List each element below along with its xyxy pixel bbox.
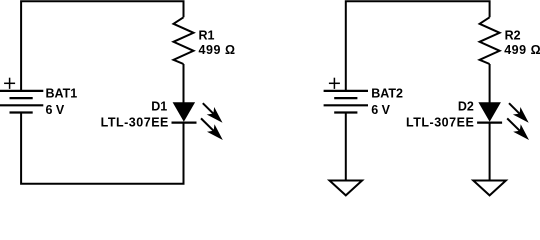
LED D2 — [477, 102, 502, 122]
svg-text:LTL-307EE: LTL-307EE — [406, 115, 474, 129]
wire: BAT2 negative to ground — [345, 113, 347, 181]
svg-text:6 V: 6 V — [371, 103, 390, 117]
wire: right circuit top rail (BAT2 + to R2) — [346, 1, 490, 91]
wire: left circuit bottom rail (BAT1 - to D1 cathode) — [21, 113, 183, 184]
resistor R2 — [480, 17, 500, 64]
svg-text:499 Ω: 499 Ω — [199, 43, 236, 57]
svg-text:BAT1: BAT1 — [46, 86, 78, 100]
battery BAT1 plus polarity mark — [4, 78, 15, 89]
svg-text:R1: R1 — [199, 29, 215, 43]
wire: D2 cathode to ground — [489, 123, 491, 181]
svg-text:D1: D1 — [151, 100, 167, 114]
battery BAT2 — [324, 91, 368, 113]
svg-text:D2: D2 — [458, 100, 474, 114]
LED D2 light emission arrows — [507, 103, 529, 140]
resistor R1 — [174, 17, 194, 64]
svg-text:BAT2: BAT2 — [371, 86, 403, 100]
svg-text:R2: R2 — [505, 29, 521, 43]
svg-text:499 Ω: 499 Ω — [504, 43, 540, 57]
svg-text:LTL-307EE: LTL-307EE — [101, 115, 169, 129]
LED D1 light emission arrows — [201, 103, 223, 140]
wire: left circuit top rail (BAT1 + to R1) — [21, 1, 183, 91]
battery BAT2 plus polarity mark — [329, 78, 340, 89]
wire: R1 to D1 anode — [183, 64, 185, 103]
ground symbol below D2 — [473, 181, 506, 196]
battery BAT1 — [0, 91, 43, 113]
LED D1 — [172, 102, 197, 122]
svg-text:6 V: 6 V — [46, 103, 65, 117]
ground symbol below BAT2 — [330, 181, 363, 196]
wire: R2 to D2 anode — [489, 64, 491, 103]
